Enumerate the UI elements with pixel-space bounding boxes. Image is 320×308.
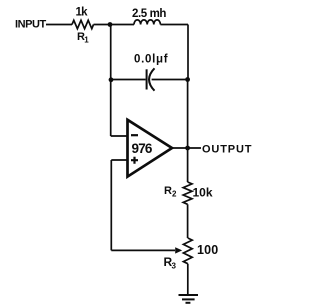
label 976 — [132, 141, 153, 156]
resistor R1 — [72, 20, 93, 28]
wire R1 to node A — [94, 24, 111, 26]
label 10k — [193, 186, 213, 200]
plus sign — [131, 157, 138, 164]
label 100 — [197, 243, 218, 257]
svg-text:2: 2 — [172, 190, 177, 199]
ground — [179, 294, 199, 296]
wire R2 to R3 — [187, 204, 189, 238]
wire input lead — [46, 24, 72, 26]
label R2 — [164, 185, 177, 199]
wire op-amp output — [172, 147, 201, 149]
svg-text:100: 100 — [197, 243, 218, 257]
wire plus feedback vertical — [110, 160, 112, 250]
wire plus input — [111, 159, 127, 161]
wire minus input — [111, 135, 128, 137]
label 1k — [76, 7, 89, 19]
wire node A to inductor — [110, 24, 134, 26]
potentiometer R3 — [183, 238, 192, 264]
label 0.01uf — [134, 54, 168, 66]
wire right vertical mid (node B to node D) — [187, 80, 189, 149]
wire feedback bottom row — [111, 249, 175, 251]
wire cap row left — [111, 79, 146, 81]
wiper arrowhead — [175, 247, 182, 253]
svg-text:976: 976 — [132, 141, 153, 156]
node D output junction dot — [185, 146, 190, 151]
svg-text:R: R — [164, 185, 172, 197]
op-amp U1 triangle — [128, 120, 173, 177]
label R1 — [77, 31, 89, 45]
minus sign — [131, 134, 138, 136]
inductor L1 2.5mh — [134, 20, 160, 25]
node B junction dot (cap right) — [185, 77, 190, 82]
label INPUT — [15, 19, 46, 31]
svg-text:10k: 10k — [193, 186, 213, 200]
capacitor C1 0.01uf — [146, 69, 148, 89]
svg-text:2.5 mh: 2.5 mh — [132, 8, 166, 20]
resistor R2 — [183, 182, 192, 204]
node C junction dot (cap left) — [109, 77, 114, 82]
svg-text:OUTPUT: OUTPUT — [202, 144, 252, 156]
wire cap row right — [152, 79, 188, 81]
label 2.5 mh — [132, 8, 166, 20]
node A junction dot — [108, 22, 113, 27]
svg-text:1: 1 — [84, 36, 89, 45]
svg-text:1k: 1k — [76, 7, 89, 19]
wire right vertical top — [187, 25, 189, 80]
wire R3 to ground — [187, 264, 189, 295]
label OUTPUT — [202, 144, 252, 156]
label R3 — [164, 255, 177, 271]
svg-text:INPUT: INPUT — [15, 19, 46, 31]
svg-text:3: 3 — [172, 262, 177, 271]
wire inductor to top-right corner — [160, 24, 188, 26]
svg-text:0.0lμf: 0.0lμf — [134, 54, 168, 66]
wire node D to R2 — [187, 148, 189, 182]
wire left vertical (node A down to minus input corner) — [110, 25, 112, 137]
